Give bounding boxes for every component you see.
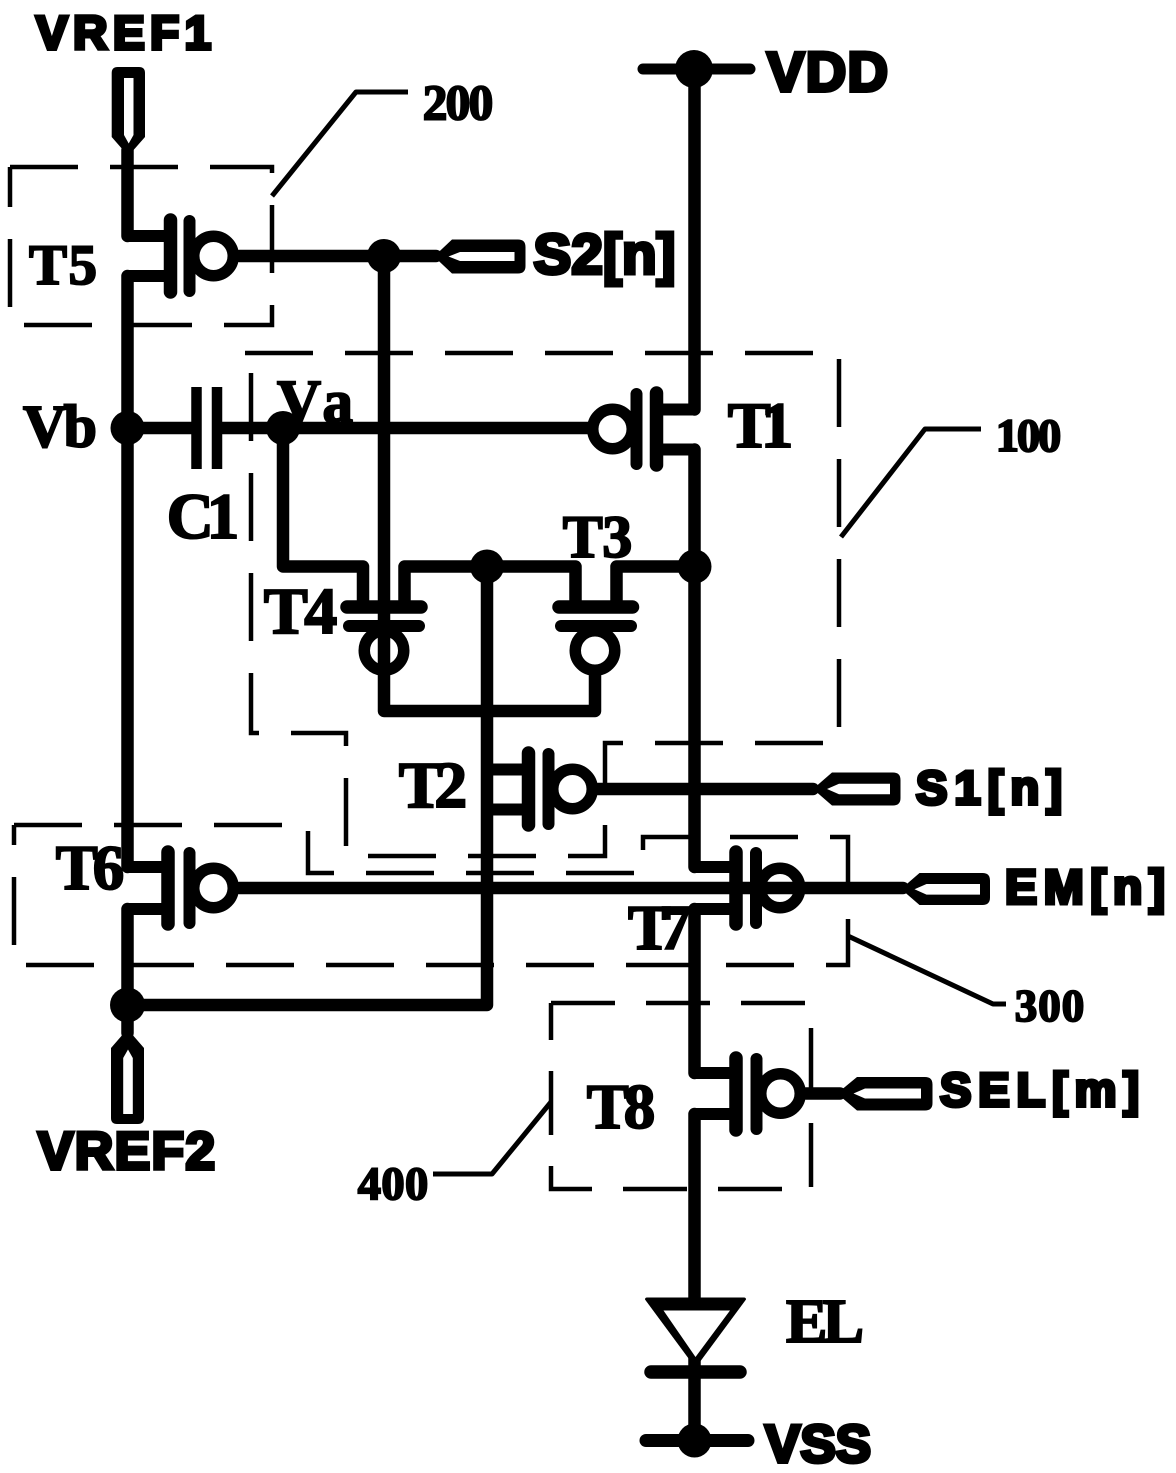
node Va junction dot: [266, 411, 300, 445]
dashed block 400: [551, 1003, 811, 1189]
node VREF2 junction dot: [110, 988, 145, 1023]
svg-text:T7: T7: [628, 892, 691, 963]
node VDD junction dot: [675, 50, 713, 88]
label T2: [399, 749, 468, 822]
wire Va down to T4 left lead: [283, 428, 363, 603]
terminal SEL[m]: [837, 1077, 933, 1111]
dashed block 300: [14, 825, 848, 965]
terminal S2[n]: [434, 240, 526, 274]
wire T4 right lead to center node to T3 left lead: [405, 567, 576, 604]
svg-text:EL: EL: [786, 1288, 864, 1356]
transistor T7: [695, 852, 800, 924]
label S1[n]: [916, 761, 1062, 814]
svg-text:T5: T5: [29, 234, 97, 297]
svg-text:VREF1: VREF1: [36, 7, 211, 60]
transistor T2: [487, 753, 592, 825]
transistor T3 (rotated, gate below): [559, 607, 633, 670]
wire Vb to C1 left plate: [133, 422, 192, 435]
transistor T6: [128, 852, 234, 924]
label 200: [423, 75, 494, 130]
leader line 400: [433, 1102, 551, 1174]
EL diode: [645, 1298, 746, 1373]
dashed block 100 (with T2 annex): [245, 353, 839, 856]
leader line 200: [272, 92, 408, 196]
wire center node down through T2 to VREF2 node row: [127, 567, 487, 1006]
wire T8 to EL diode: [688, 1300, 701, 1441]
transistor T1 (mirrored): [593, 393, 695, 465]
terminal VREF2: [111, 1029, 144, 1124]
wire left rail (VREF1 to VREF2 node): [121, 150, 134, 1005]
node Vb junction dot: [111, 411, 145, 445]
capacitor C1: [197, 387, 218, 469]
svg-text:VSS: VSS: [765, 1415, 871, 1473]
label 100: [996, 411, 1062, 462]
VDD power bar: [643, 64, 750, 75]
leader line 100: [841, 429, 981, 537]
svg-text:Vb: Vb: [23, 394, 97, 460]
terminal S1[n]: [813, 773, 901, 806]
svg-text:T8: T8: [587, 1072, 656, 1142]
label EM[n]: [1005, 862, 1165, 915]
wire T6 drain junction to VREF2 terminal: [121, 1005, 134, 1033]
label T1: [728, 390, 794, 461]
transistor T4 (rotated, gate below): [347, 607, 421, 670]
node center junction dot: [470, 550, 504, 584]
label T7: [628, 892, 691, 963]
svg-text:400: 400: [358, 1159, 429, 1210]
label VREF1: [36, 7, 211, 60]
svg-text:300: 300: [1015, 981, 1085, 1031]
transistor T8: [695, 1058, 801, 1130]
wire C1 right plate to Va to T1 gate circle: [221, 422, 588, 435]
label T6: [56, 833, 125, 903]
svg-text:C1: C1: [167, 481, 240, 553]
node VSS junction dot: [678, 1424, 712, 1458]
label SEL[m]: [940, 1063, 1139, 1116]
label S2[n]: [534, 223, 676, 286]
label Va: [277, 369, 353, 436]
dashed block 200: [10, 167, 272, 325]
svg-text:T1: T1: [728, 390, 794, 461]
svg-text:T6: T6: [56, 833, 125, 903]
svg-text:T2: T2: [399, 749, 468, 822]
svg-text:S2[n]: S2[n]: [534, 223, 676, 286]
label T3: [563, 504, 633, 570]
label T5: [29, 234, 97, 297]
node T1-drain junction dot: [678, 550, 712, 584]
wire VDD rail vertical: [688, 69, 701, 1300]
label 300: [1015, 981, 1085, 1031]
leader line 300: [848, 936, 1006, 1004]
wire S1 gate lead from T2: [598, 783, 813, 796]
label 400: [358, 1159, 429, 1210]
label C1: [167, 481, 240, 553]
svg-text:100: 100: [996, 411, 1062, 462]
terminal EM[n]: [901, 873, 990, 905]
label Vb: [23, 394, 97, 460]
svg-text:T3: T3: [563, 504, 633, 570]
wire S2 net vertical through T4 to T3 gate (U shape): [384, 256, 595, 711]
svg-text:VREF2: VREF2: [38, 1122, 215, 1181]
node S2 junction dot: [367, 239, 401, 273]
VSS power bar: [646, 1434, 748, 1447]
transistor T5: [128, 220, 234, 292]
wire EM gate lead from T6 through T7: [240, 882, 904, 895]
wire T3 right lead to VDD-rail junction: [617, 567, 695, 604]
svg-text:Va: Va: [277, 369, 353, 436]
svg-text:200: 200: [423, 75, 494, 130]
label EL: [786, 1288, 864, 1356]
wire S2 gate lead row: [240, 250, 437, 263]
label VREF2: [38, 1122, 215, 1181]
label T4: [264, 575, 338, 648]
svg-text:T4: T4: [264, 575, 338, 648]
svg-text:VDD: VDD: [767, 40, 888, 103]
label T8: [587, 1072, 656, 1142]
label VSS: [765, 1415, 871, 1473]
terminal VREF1: [112, 67, 145, 156]
wire SEL gate lead from T8: [806, 1087, 840, 1100]
label VDD: [767, 40, 888, 103]
svg-text:SEL[m]: SEL[m]: [940, 1063, 1139, 1116]
